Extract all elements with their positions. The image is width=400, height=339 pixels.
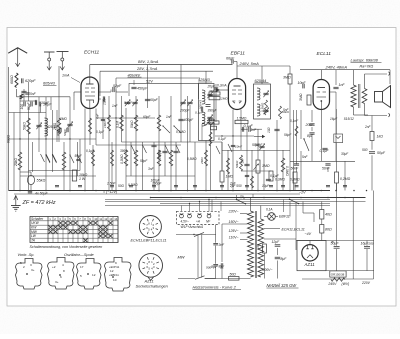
svg-text:20pF: 20pF — [207, 85, 216, 89]
svg-text:17: 17 — [80, 265, 84, 269]
svg-text:1nF: 1nF — [251, 128, 258, 132]
resistor 1MΩ c — [157, 115, 161, 131]
wire drop h2 — [283, 200, 285, 213]
wire — [111, 142, 113, 191]
switch mid2 — [165, 145, 169, 153]
tube AZ11 filament — [307, 255, 313, 258]
svg-text:80Ω: 80Ω — [325, 228, 332, 232]
svg-text:100: 100 — [256, 244, 260, 249]
svg-text:0,1nF: 0,1nF — [290, 119, 299, 123]
svg-text:100: 100 — [20, 104, 24, 110]
IFT1 trimmer 2 — [207, 116, 212, 118]
svg-text:50Ω: 50Ω — [118, 184, 125, 188]
junction b — [180, 197, 182, 199]
trimmer band b — [132, 101, 137, 103]
svg-text:Oszillator—Spule: Oszillator—Spule — [64, 253, 94, 257]
antenna lead-in wire — [17, 48, 19, 66]
ground bus main — [9, 190, 331, 192]
wire az top — [309, 241, 311, 245]
resistor f — [157, 150, 161, 166]
trimmer left2 — [67, 123, 72, 125]
svg-text:390pF: 390pF — [208, 109, 218, 113]
resistor 0.5MΩ det — [265, 100, 268, 115]
resistor 2MΩ l2 — [209, 121, 219, 124]
wire TA feeders — [181, 206, 183, 212]
capacitor 5nF ant — [25, 92, 29, 94]
svg-text:60pF: 60pF — [150, 98, 159, 102]
wire ift1 down — [209, 118, 211, 124]
junction — [276, 190, 278, 192]
wire — [175, 142, 177, 191]
wire — [153, 142, 155, 191]
wire — [50, 97, 52, 110]
wire ecl col2 — [300, 110, 302, 139]
svg-text:50kΩ: 50kΩ — [235, 160, 239, 168]
mains transformer core — [254, 211, 256, 278]
wire — [56, 110, 58, 142]
wire IFT1 top — [205, 71, 207, 83]
svg-text:12: 12 — [110, 269, 114, 273]
coil form Vorkreis 2 — [48, 258, 75, 290]
svg-text:50nF: 50nF — [291, 167, 300, 171]
capacitor bus — [193, 185, 197, 187]
capacitor 50pF — [21, 90, 26, 92]
wire — [92, 145, 94, 191]
svg-text:3+: 3+ — [31, 268, 35, 272]
svg-text:Netzteil 325 GW: Netzteil 325 GW — [267, 283, 298, 288]
capacitor 12μF — [275, 244, 281, 246]
bus 52V — [129, 82, 199, 84]
junction b — [240, 197, 242, 199]
capacitor bus — [78, 185, 82, 187]
svg-text:425/43: 425/43 — [198, 78, 211, 82]
switch band a — [163, 126, 170, 133]
junction — [115, 190, 117, 192]
wire trafo top — [353, 70, 355, 85]
svg-text:12: 12 — [92, 273, 96, 277]
resistor 3MΩ r — [288, 74, 292, 84]
resistor 1MΩ h — [211, 126, 217, 130]
bus 28V 1.7mA — [100, 70, 213, 72]
capacitor 40pF — [59, 128, 61, 132]
divider dash line — [335, 109, 337, 134]
wire — [19, 97, 21, 191]
mains transformer primary — [248, 211, 254, 277]
svg-text:20kΩ: 20kΩ — [14, 158, 18, 167]
svg-text:52V: 52V — [146, 79, 153, 83]
wire top right bus — [300, 69, 390, 71]
svg-text:1MΩ: 1MΩ — [103, 121, 107, 128]
resistor rv4 — [111, 150, 114, 166]
wire — [35, 101, 37, 105]
junction — [335, 190, 337, 192]
capacitor 50μF gnd — [28, 191, 32, 193]
svg-text:0,1M: 0,1M — [116, 121, 120, 128]
junction b — [327, 197, 329, 199]
capacitor 5nF — [244, 163, 249, 165]
resistor 0.2MΩ ecl — [335, 172, 339, 183]
wire — [108, 96, 110, 191]
svg-text:40V/4V: 40V/4V — [128, 73, 141, 77]
svg-text:240V, 48mA: 240V, 48mA — [325, 65, 348, 70]
junction — [158, 190, 160, 192]
tube ECH11 anode — [86, 83, 94, 85]
svg-text:12μF: 12μF — [272, 240, 281, 244]
wire hline2 — [9, 112, 47, 114]
svg-text:220V: 220V — [361, 281, 371, 285]
junction — [187, 190, 189, 192]
wire trafo bot — [353, 107, 355, 115]
heater bus — [105, 205, 330, 207]
wire TA switch row — [176, 234, 216, 236]
capacitor 50μF fb — [369, 151, 375, 153]
wire ps right b — [366, 241, 368, 246]
resistor 1.5MΩ det — [235, 120, 248, 123]
wire hline3 — [9, 138, 97, 140]
wire h mid2 — [122, 141, 223, 143]
svg-text:200pF: 200pF — [179, 109, 190, 113]
wire — [147, 65, 149, 109]
IFT1 trimmer 1 — [207, 93, 212, 95]
svg-text:+EBF11: +EBF11 — [109, 273, 119, 277]
svg-text:66pF: 66pF — [226, 56, 235, 60]
wire 277 col — [276, 120, 278, 191]
svg-text:−2V: −2V — [299, 191, 306, 195]
dial lamp — [268, 213, 276, 221]
svg-text:8μF: 8μF — [219, 265, 226, 269]
svg-text:515/12: 515/12 — [344, 117, 354, 121]
tube EBF11 diodes — [233, 102, 235, 104]
tap 150V — [240, 223, 248, 225]
capacitor 20pF ift — [214, 87, 218, 89]
svg-text:Lautspr. 698/38: Lautspr. 698/38 — [351, 58, 379, 63]
barretter zigzag — [331, 278, 345, 281]
wire EBF bottom — [232, 110, 234, 191]
svg-text:3990: 3990 — [120, 149, 127, 153]
speaker terminal top — [364, 74, 366, 89]
svg-text:50pF: 50pF — [27, 101, 31, 110]
svg-text:56pF: 56pF — [284, 133, 292, 137]
svg-text:50pF: 50pF — [255, 143, 263, 147]
svg-text:200V~: 200V~ — [262, 268, 273, 272]
capacitor bus — [152, 185, 156, 187]
switch contacts left — [46, 155, 50, 163]
wire EBF to cap — [234, 61, 237, 63]
wire ECH11 bottom leads — [84, 109, 86, 191]
svg-text:ECH11: ECH11 — [84, 50, 100, 56]
wire — [125, 108, 127, 191]
svg-text:3: 3 — [30, 263, 32, 267]
coil form Oszillator 1 — [77, 259, 102, 290]
socket AZ11 — [139, 254, 163, 278]
capacitor cm1 — [245, 174, 249, 176]
resistor 50Ω mains — [229, 277, 240, 281]
svg-text:0,1μF: 0,1μF — [124, 101, 133, 105]
svg-text:0,5MΩ: 0,5MΩ — [187, 157, 197, 161]
svg-text:1MΩ: 1MΩ — [226, 175, 234, 179]
wire mains left — [222, 223, 240, 225]
IFT1 primary coil — [202, 90, 205, 104]
wire 283 col — [282, 150, 284, 191]
svg-text:1nF: 1nF — [339, 83, 346, 87]
tap 220V — [240, 213, 248, 215]
wire — [28, 82, 30, 101]
capacitor 50nF a — [294, 163, 299, 165]
junction — [366, 190, 368, 192]
IFT1 secondary coil — [202, 112, 205, 126]
resistor 100Ω ps — [263, 244, 267, 253]
svg-text:505/43: 505/43 — [199, 100, 203, 109]
wire — [158, 96, 160, 191]
svg-text:50Ω: 50Ω — [230, 272, 237, 276]
svg-text:2MΩ: 2MΩ — [220, 97, 228, 101]
svg-text:3nF: 3nF — [148, 167, 155, 171]
svg-text:400pF: 400pF — [184, 118, 195, 122]
wire TA down pair — [197, 235, 199, 278]
tube AZ11 anodes — [306, 248, 309, 250]
svg-text:0,1μF: 0,1μF — [320, 149, 330, 153]
svg-text:14: 14 — [114, 217, 118, 221]
tube ECL11 grids — [317, 91, 321, 93]
svg-text:20nF: 20nF — [305, 123, 315, 127]
wire riser 129 — [128, 83, 130, 96]
svg-text:8μF: 8μF — [307, 134, 314, 138]
svg-text:ECH11,EBF11,ECL11: ECH11,EBF11,ECL11 — [131, 239, 167, 243]
output transformer secondary — [362, 89, 367, 104]
wire fb — [371, 116, 373, 132]
speaker — [375, 92, 383, 103]
svg-text:55kΩ: 55kΩ — [37, 179, 46, 183]
wire ecl col7 — [327, 167, 329, 172]
svg-text:0,3MΩ: 0,3MΩ — [120, 154, 124, 164]
mains switch b — [290, 199, 299, 203]
resistor 50kΩ b — [134, 115, 138, 131]
capacitor 450pF — [131, 86, 136, 88]
tube EBF11 grid lead — [216, 89, 228, 91]
svg-text:AZ11: AZ11 — [144, 278, 154, 283]
svg-text:5: 5 — [20, 261, 22, 265]
wire — [45, 97, 47, 191]
tube EBF11 envelope — [228, 79, 245, 110]
wire — [32, 142, 34, 172]
junction — [69, 190, 71, 192]
wire ecl col5 — [335, 110, 337, 161]
svg-text:0,5MΩ: 0,5MΩ — [128, 183, 138, 187]
svg-text:2MΩ: 2MΩ — [206, 118, 214, 122]
wire ECL top — [320, 70, 322, 80]
svg-text:EBF11: EBF11 — [279, 215, 290, 219]
resistor rv5 — [205, 150, 208, 166]
wire ecl col1 — [293, 110, 295, 191]
junction — [321, 190, 323, 192]
choke small — [20, 94, 23, 99]
svg-text:0,1μF: 0,1μF — [218, 137, 227, 141]
capacitor 3nF ta — [215, 225, 217, 243]
wire — [194, 142, 196, 191]
svg-text:Heizstromkreis - Kurve 2: Heizstromkreis - Kurve 2 — [193, 285, 237, 290]
trimmer band a — [125, 101, 130, 103]
tube ECH11 grids — [85, 87, 89, 89]
resistor d — [124, 150, 128, 166]
svg-text:10nF: 10nF — [235, 145, 243, 149]
IFT1 box 425/43 — [199, 84, 215, 141]
junction b — [215, 197, 217, 199]
resistor 55kΩ pot — [27, 175, 34, 184]
capacitor bus — [326, 185, 330, 187]
svg-text:13: 13 — [109, 217, 113, 221]
resistor left3 — [62, 152, 66, 170]
svg-text:1mA: 1mA — [62, 74, 70, 78]
svg-text:16μF: 16μF — [330, 117, 338, 121]
tuning capacitor C1 trimmer — [36, 124, 41, 126]
IFT2 trimmer 2 — [263, 109, 268, 111]
svg-text:52pF: 52pF — [113, 84, 122, 88]
svg-text:0,1A: 0,1A — [266, 208, 273, 212]
wire — [221, 142, 223, 171]
wire — [77, 142, 79, 176]
box around az — [297, 241, 326, 271]
capacitor 100pF — [23, 102, 25, 107]
resistor 2MΩ v — [220, 171, 224, 182]
junction — [19, 190, 21, 192]
svg-text:50μF: 50μF — [75, 154, 83, 158]
wire det h — [215, 135, 254, 137]
resistor 50kΩ r — [295, 126, 298, 136]
trimmer mid1 — [180, 101, 185, 103]
svg-text:200: 200 — [368, 242, 374, 246]
capacitor 10μF left — [34, 100, 36, 105]
wire az left — [302, 202, 304, 214]
svg-text:0,3MΩ: 0,3MΩ — [275, 178, 285, 182]
capacitor 52pF — [112, 87, 114, 92]
capacitor bus — [174, 185, 178, 187]
svg-text:100: 100 — [267, 127, 271, 133]
junction — [353, 190, 355, 192]
svg-text:3+: 3+ — [55, 280, 59, 284]
mains switch — [237, 200, 246, 204]
svg-text:12: 12 — [104, 217, 108, 221]
capacitor mid5 — [178, 118, 183, 120]
wire IFT2 top — [261, 66, 263, 84]
antenna coil L1 600Ω — [15, 73, 18, 88]
svg-text:0,3MΩ: 0,3MΩ — [285, 166, 289, 176]
tap 110V — [240, 239, 248, 241]
tap 125V — [240, 232, 248, 234]
wire — [79, 139, 81, 171]
svg-text:0,5MΩ: 0,5MΩ — [260, 102, 264, 112]
tube ECL11 anode — [318, 87, 326, 89]
wire — [263, 150, 265, 191]
wire h mid3 — [126, 175, 195, 177]
svg-text:605/43: 605/43 — [43, 82, 56, 86]
wire hline5 — [29, 170, 81, 172]
svg-text:0,1MΩ: 0,1MΩ — [176, 130, 186, 134]
capacitor bus — [295, 185, 299, 187]
tube ECL11 envelope — [313, 80, 329, 110]
junction b — [263, 197, 265, 199]
svg-text:125V~: 125V~ — [229, 229, 239, 233]
capacitor 0.1μF coupling — [248, 127, 250, 132]
switch ecl — [304, 139, 309, 151]
svg-text:2MΩ: 2MΩ — [200, 157, 204, 165]
capacitor 0.1μF l — [200, 107, 202, 112]
svg-text:0,1μF: 0,1μF — [86, 149, 95, 153]
capacitor 620pF — [21, 78, 23, 83]
tube EBF11 anode — [234, 85, 241, 87]
junction — [170, 190, 172, 192]
svg-text:240V, 5mA: 240V, 5mA — [239, 61, 260, 66]
wire — [58, 66, 60, 142]
resistor 3MΩ 1W — [72, 170, 76, 181]
svg-text:= (−12V): = (−12V) — [103, 190, 117, 194]
svg-text:Vorkr.-Sp.: Vorkr.-Sp. — [18, 253, 35, 257]
IFT2 box 620/44 — [254, 84, 271, 119]
svg-text:1MΩ: 1MΩ — [262, 164, 270, 168]
svg-text:500: 500 — [362, 148, 368, 152]
bus c thick — [150, 197, 366, 199]
svg-text:0,3mA: 0,3mA — [217, 84, 227, 88]
wire — [296, 110, 298, 165]
svg-text:28V, 1,7mA: 28V, 1,7mA — [136, 66, 158, 71]
resistor 3MΩ ecl — [307, 95, 311, 105]
wire — [52, 110, 54, 172]
wire h 161 — [290, 160, 355, 162]
svg-text:60pF: 60pF — [143, 115, 151, 119]
svg-text:2MΩ: 2MΩ — [59, 117, 67, 121]
svg-text:40Ω: 40Ω — [325, 213, 332, 217]
switch mid — [131, 145, 135, 153]
capacitor 66pF anode — [231, 59, 233, 63]
svg-text:W1F+Anschluß: W1F+Anschluß — [181, 225, 204, 229]
wire ecl col4 — [320, 110, 322, 162]
svg-text:0,1μF: 0,1μF — [244, 124, 254, 128]
capacitor 50pF c — [66, 128, 68, 132]
antenna tap terminal 2 — [44, 51, 55, 53]
svg-text:425/43: 425/43 — [47, 125, 57, 129]
switch det — [216, 146, 220, 154]
svg-text:50pF: 50pF — [140, 159, 148, 163]
svg-text:4x 50μF: 4x 50μF — [35, 191, 49, 195]
capacitor 50μF k — [76, 158, 80, 160]
svg-text:3MΩ: 3MΩ — [283, 76, 291, 80]
svg-text:Schalteranordnung, von Vorders: Schalteranordnung, von Vorderseite geseh… — [30, 245, 103, 249]
capacitor 1nF det — [241, 127, 243, 132]
resistor rv7 — [227, 158, 230, 174]
resistor det — [281, 158, 285, 172]
resistor 5kΩ fb — [370, 132, 374, 141]
wire — [210, 125, 212, 191]
socket ECH11-EBF11-ECL11 — [139, 216, 161, 238]
resistor left4 — [18, 152, 22, 170]
capacitor 50nF b — [325, 163, 330, 165]
bus 240V 5mA — [237, 65, 290, 67]
speaker terminal bottom — [364, 104, 366, 116]
svg-text:+2: +2 — [52, 265, 56, 269]
IFT2 secondary coil — [257, 104, 260, 116]
svg-text:220V~: 220V~ — [228, 210, 239, 214]
tube ECH11 grid lead — [74, 91, 81, 93]
output transformer core — [357, 84, 359, 108]
wire ps bottom — [302, 278, 374, 280]
svg-text:1,5MΩ: 1,5MΩ — [237, 117, 247, 121]
capacitor 10nF ecl — [302, 84, 304, 89]
svg-text:2,5nF: 2,5nF — [106, 182, 116, 186]
volume pot 1MΩ — [256, 160, 260, 173]
wire ps col — [264, 253, 266, 279]
svg-text:245V: 245V — [327, 282, 337, 286]
tube ECH11 envelope — [81, 77, 99, 109]
resistor rv2 — [89, 118, 92, 134]
